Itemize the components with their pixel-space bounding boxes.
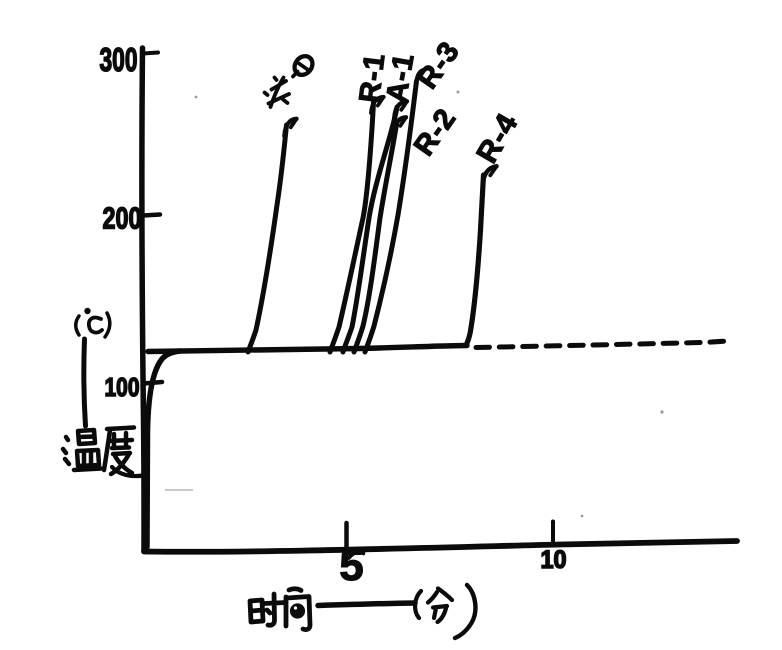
du (temperature char 2) [104, 428, 143, 477]
svg-text:10: 10 [541, 546, 567, 574]
R-3 connector curl to label [417, 70, 424, 81]
plateau line [148, 346, 467, 352]
x title arrow line [318, 603, 415, 606]
( of (fen) [415, 591, 421, 618]
scan speckles [165, 91, 664, 518]
kongbai label (rotated) [265, 53, 317, 107]
tick 200 [143, 215, 160, 216]
(c) pointer line [84, 339, 86, 426]
tick 10 [551, 522, 555, 544]
(c) degree label [76, 316, 79, 335]
x-axis [144, 541, 737, 552]
5 curl connector [349, 552, 364, 558]
y-axis [142, 48, 144, 551]
baseline heating curve rise [147, 351, 180, 547]
blank (kongbai) curve [248, 125, 287, 352]
svg-text:100: 100 [105, 372, 140, 402]
axis number labels [100, 41, 567, 590]
svg-text:200: 200 [103, 201, 142, 236]
shi (time char 1) [250, 594, 286, 625]
R-2 arrowhead [394, 117, 406, 134]
x-axis left overlay (scan thickness) [146, 550, 358, 553]
svg-text:5: 5 [339, 541, 363, 590]
tick 5 [344, 523, 349, 549]
curve R-4 [466, 175, 484, 346]
R-1 arrowhead [371, 97, 383, 113]
curve R-3 [365, 81, 417, 352]
curve R-2 [354, 124, 397, 352]
jian (time char 2) [286, 589, 310, 630]
svg-text:300: 300 [100, 41, 138, 78]
A-1 arrowhead [394, 101, 407, 118]
fen char [428, 589, 452, 623]
tick 300 [143, 53, 158, 54]
) of (fen) big sweep [455, 585, 475, 638]
R-4 arrowhead [483, 166, 497, 186]
curve labels [354, 36, 525, 169]
curve A-1 [343, 107, 397, 352]
dashed plateau continuation [476, 341, 733, 348]
wen (temperature char 1) [63, 430, 101, 470]
tick 100 [143, 382, 162, 384]
blank curve arrowhead [284, 119, 296, 136]
curve R-1 [330, 102, 374, 352]
